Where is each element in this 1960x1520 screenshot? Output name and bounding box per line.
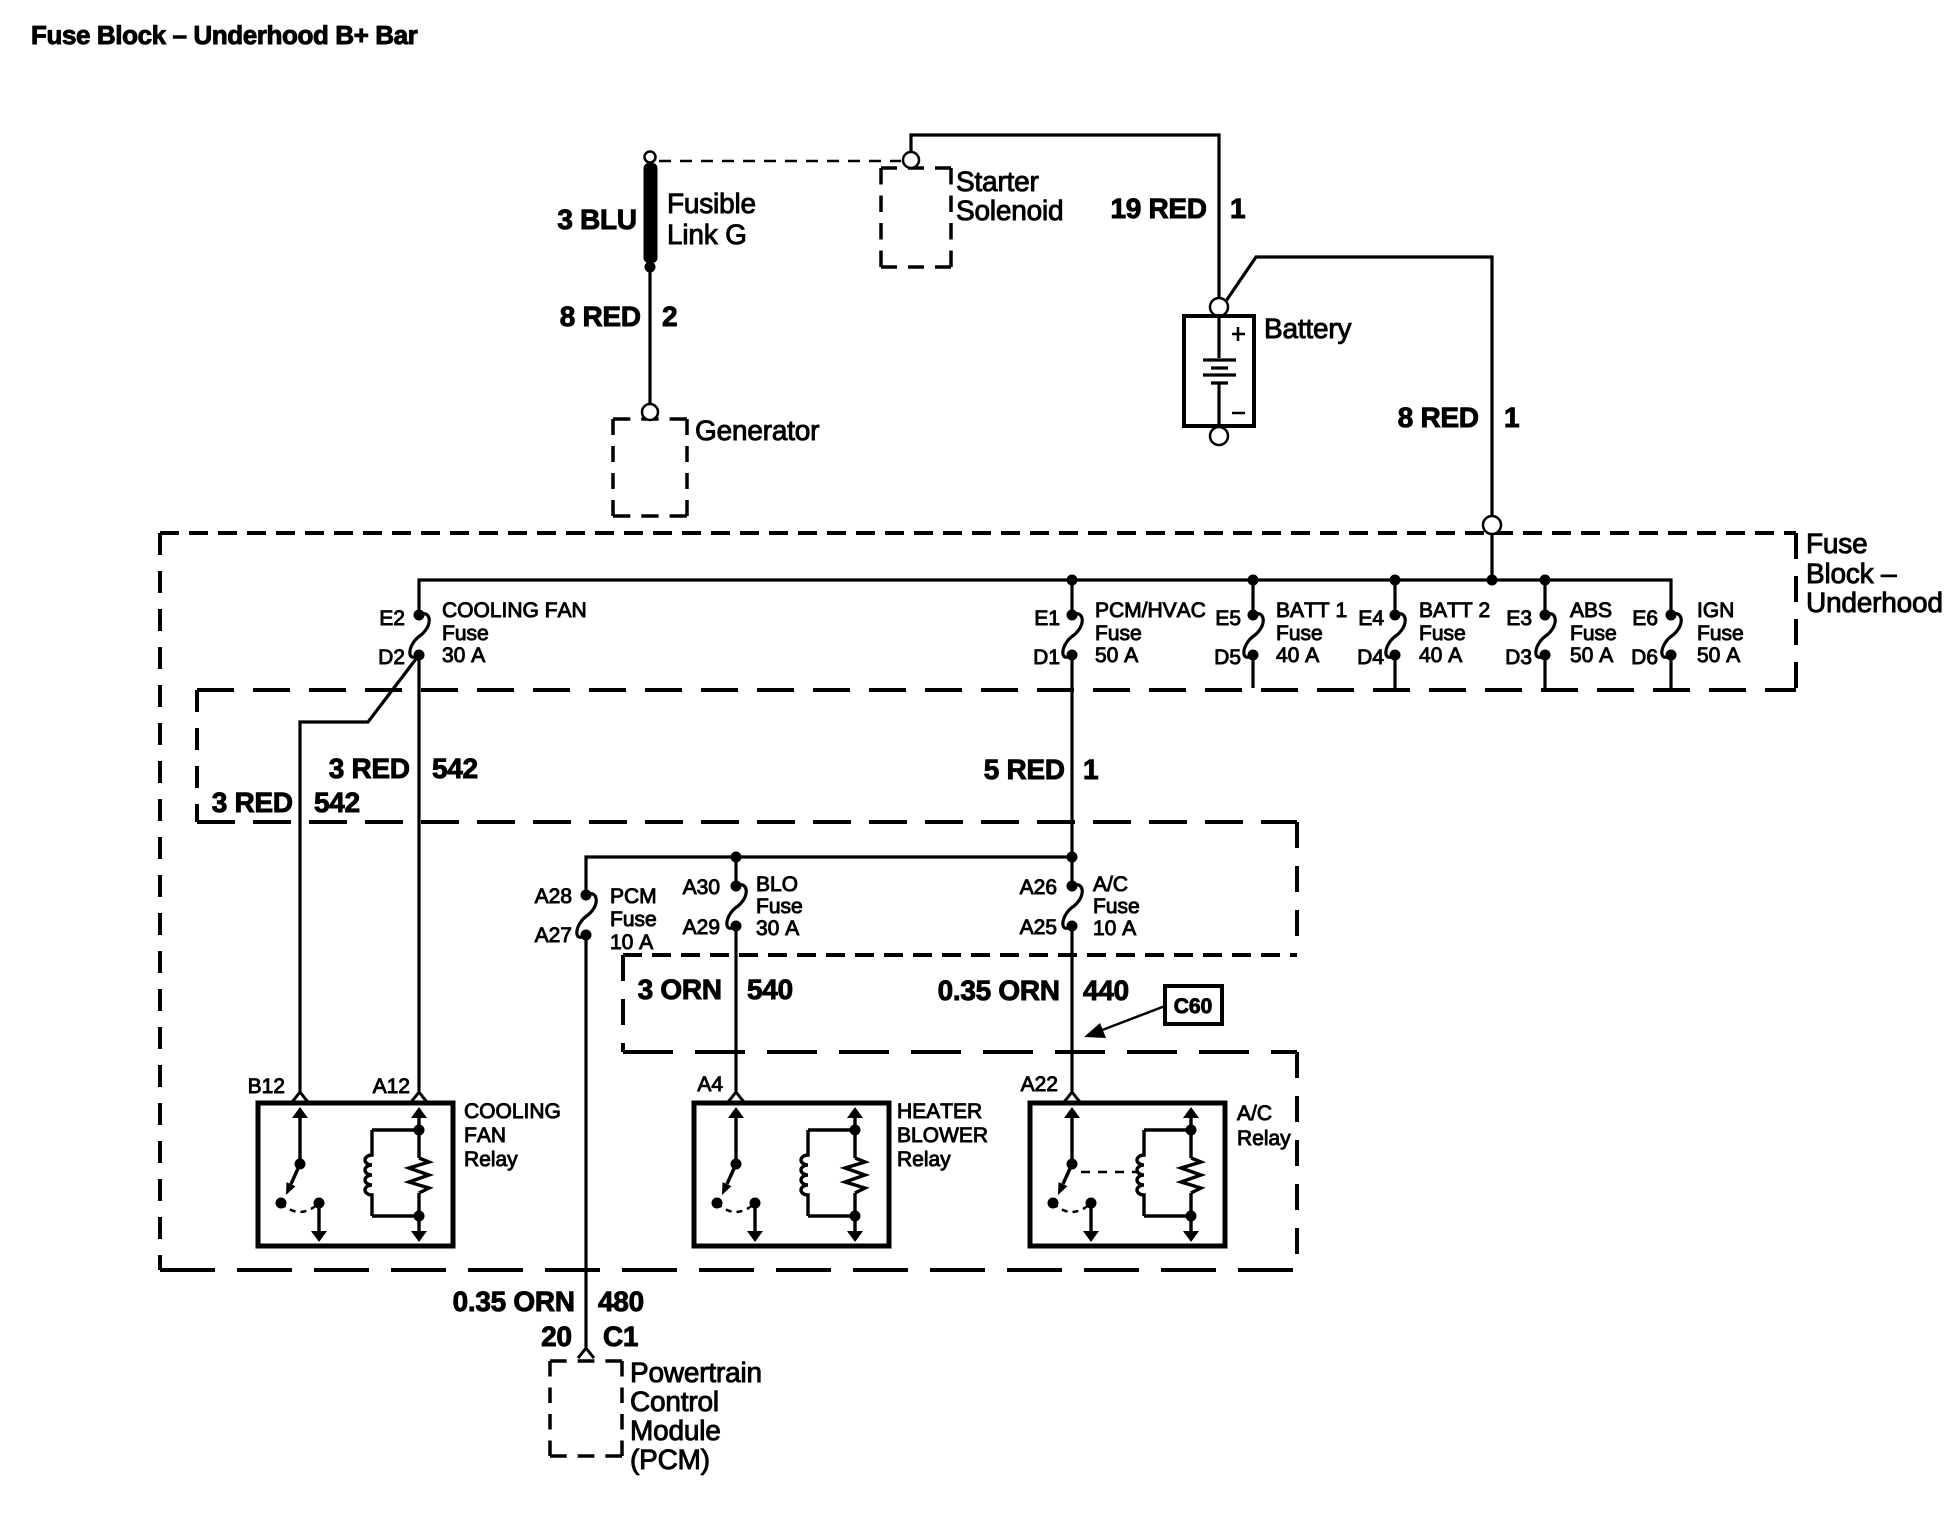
pin label D1 (1035, 650, 1059, 664)
fuse PCM/HVAC 50A E1-D1 (1063, 610, 1082, 661)
label BATT 2 Fuse 40 A (1421, 602, 1489, 617)
label Powertrain Control Module (PCM) (632, 1362, 760, 1383)
pin label A28 (535, 888, 571, 903)
wire 3 RED 542 D2 to A12 (417, 655, 420, 1091)
pin label A4 (697, 1077, 722, 1091)
connector B12 (292, 1092, 308, 1102)
connector A22 (1064, 1092, 1080, 1102)
PCM box (550, 1361, 622, 1456)
junction bus at E4 (1390, 575, 1401, 586)
battery positive terminal ring (1210, 298, 1228, 316)
fuse BLO 30A A30-A29 (727, 881, 746, 932)
pin label D5 (1216, 650, 1240, 665)
wire lower feed bus (586, 857, 1072, 895)
pin label D6 (1633, 649, 1657, 664)
pin label D2 (380, 649, 404, 664)
label IGN Fuse 50 A (1699, 602, 1733, 617)
label PCM Fuse 10 A (612, 888, 655, 903)
relay A/C (1030, 1103, 1225, 1246)
pin label A30 (683, 879, 720, 894)
pin label E2 (381, 610, 404, 625)
connector A4 (728, 1092, 744, 1102)
wire label 19 RED 1 (1112, 198, 1206, 218)
battery (1184, 316, 1254, 445)
pin label A25 (1020, 919, 1056, 934)
wire B+ ring to bus (1490, 534, 1493, 580)
wire 5 RED 1 D1 down to A26 (1070, 655, 1073, 886)
wire D3 to block edge (1543, 655, 1546, 688)
fuse PCM 10A A28-A27 (577, 890, 596, 941)
junction bus at E1 (1067, 575, 1078, 586)
fuse A/C 10A A26-A25 (1063, 881, 1082, 932)
wire label 8 RED 1 (1399, 407, 1478, 427)
label HEATER BLOWER Relay (899, 1104, 982, 1118)
pin label E4 (1360, 611, 1383, 625)
label A/C Fuse 10 A (1093, 876, 1127, 891)
wire 8 RED fusible link to generator (648, 263, 651, 404)
wire label 0.35 ORN 480 (454, 1291, 573, 1311)
label BLO Fuse 30 A (758, 876, 797, 891)
fuse block underhood dashed outline (160, 533, 1796, 1270)
A/C relay switch-to-coil dashed link (1081, 1171, 1139, 1174)
wire label 3 ORN 540 (638, 979, 720, 999)
connector A12 (411, 1092, 427, 1102)
pin label 20 C1 (542, 1326, 571, 1346)
diagram title (33, 25, 418, 44)
generator terminal ring (642, 404, 658, 420)
generator box (613, 419, 687, 516)
label Battery (1266, 319, 1351, 344)
pin label E3 (1508, 610, 1531, 625)
junction bus at E5 (1248, 575, 1259, 586)
junction lower bus at A30 (731, 852, 742, 863)
wire label 5 RED 1 (985, 760, 1064, 780)
wire bus drop to E5 (1251, 580, 1254, 615)
label PCM/HVAC Fuse 50 A (1097, 602, 1205, 617)
wire 8 RED battery positive to fuse block (1226, 257, 1492, 517)
pin label A26 (1020, 879, 1056, 894)
wire 3 ORN 540 A29 to A4 (734, 926, 737, 1091)
label A/C Relay (1237, 1105, 1271, 1120)
pin label A29 (683, 919, 719, 934)
wire bus drop to E3 (1543, 580, 1546, 615)
wire bus drop to A30 (734, 857, 737, 886)
wire 0.35 ORN 480 A27 to PCM C1 (584, 935, 587, 1347)
label Fusible Link G (669, 193, 755, 214)
battery negative terminal ring (1210, 427, 1228, 445)
pin label A22 (1021, 1076, 1057, 1091)
fuse BATT 2 40A E4-D4 (1386, 610, 1405, 661)
wire label 0.35 ORN 440 (939, 980, 1058, 1000)
wire bus drop to E4 (1393, 580, 1396, 615)
fuse IGN 50A E6-D6 (1662, 610, 1681, 661)
label Generator (696, 420, 819, 440)
relay COOLING FAN (258, 1103, 453, 1246)
fusible link G element (644, 163, 658, 263)
wire D6 to block edge (1669, 655, 1672, 688)
wire 0.35 ORN 440 A25 to A22 (1070, 926, 1073, 1091)
pin label A12 (373, 1078, 409, 1093)
pin label D3 (1507, 649, 1531, 664)
wire 3 RED 542 D2 to B12 (300, 655, 419, 1091)
node B+ ring at fuse block entry (1483, 516, 1501, 534)
wire D4 to block edge (1393, 655, 1396, 688)
pin label E5 (1217, 611, 1240, 626)
pin label B12 (249, 1078, 284, 1093)
wire 19 RED starter solenoid to battery positive (911, 135, 1219, 297)
relay HEATER BLOWER (694, 1103, 889, 1246)
wire B+ bar bus (419, 580, 1671, 615)
connector C1 pin 20 (578, 1348, 594, 1358)
starter solenoid terminal ring (903, 152, 919, 168)
junction bus at E3 (1540, 575, 1551, 586)
junction bus at 8 RED feed (1487, 575, 1498, 586)
connector callout C60 (1084, 986, 1222, 1038)
junction lower bus at A26 (1067, 852, 1078, 863)
starter solenoid box (881, 168, 951, 267)
fuse BATT 1 40A E5-D5 (1244, 610, 1263, 661)
label Starter Solenoid (957, 171, 1038, 191)
label ABS Fuse 50 A (1570, 602, 1611, 617)
wire bus drop to E1 (1070, 580, 1073, 615)
wire label 3 RED 542 lower (212, 792, 291, 812)
wire D5 to block edge (1251, 655, 1254, 688)
wire label 8 RED 2 (561, 306, 640, 326)
label COOLING FAN Fuse 30 A (443, 602, 585, 617)
pin label E1 (1036, 611, 1059, 625)
label BATT 1 Fuse 40 A (1278, 603, 1347, 617)
fuse ABS 50A E3-D3 (1536, 610, 1555, 661)
fuse COOLING FAN 30A E2-D2 (410, 610, 429, 661)
fusible link G top terminal ring (645, 152, 656, 163)
label COOLING FAN Relay (465, 1103, 559, 1118)
wire label 3 RED 542 upper (329, 758, 408, 778)
dashed wire fusible link to starter solenoid (659, 160, 901, 163)
junction fusible link bottom (645, 262, 656, 273)
label Fuse Block - Underhood (1808, 534, 1866, 554)
pin label E6 (1634, 610, 1657, 625)
pin label A27 (535, 927, 571, 942)
wire label 3 BLU (558, 209, 635, 229)
pin label D4 (1359, 650, 1384, 664)
